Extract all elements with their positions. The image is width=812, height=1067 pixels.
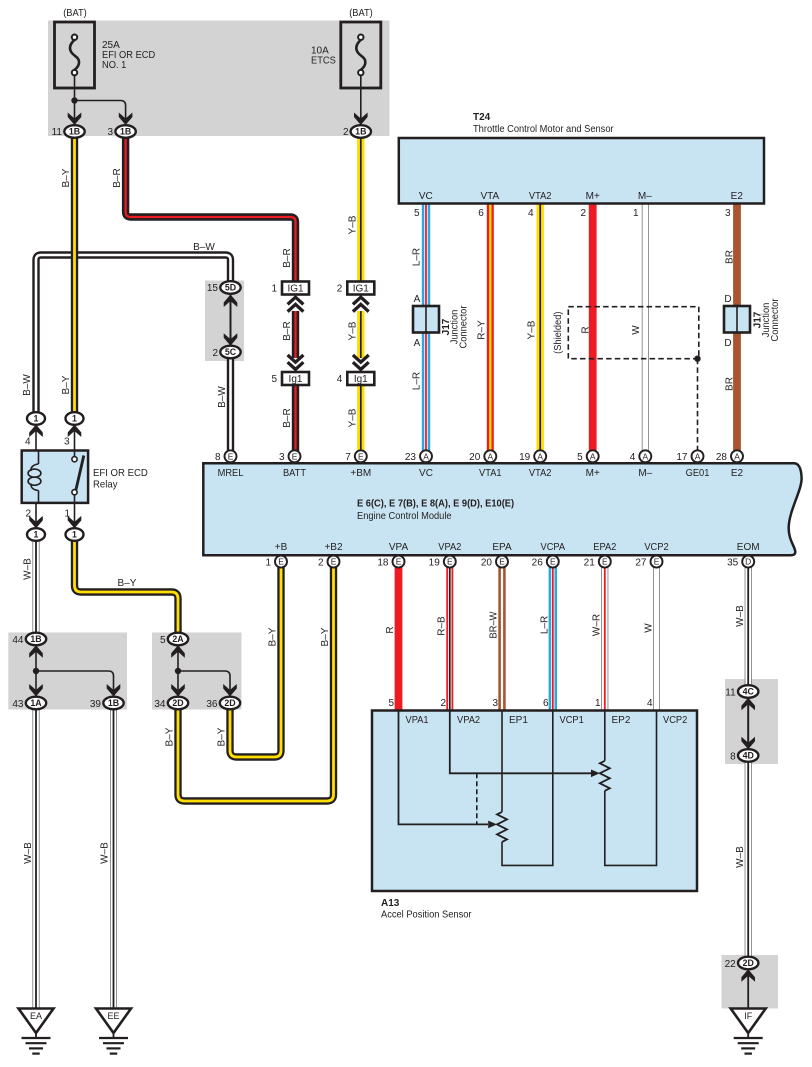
wire W-B 43-1A to ground EA	[33, 710, 40, 1009]
svg-text:5C: 5C	[225, 347, 237, 357]
wire stub below 2 IG1 box	[360, 295, 362, 299]
svg-text:Y–B: Y–B	[526, 320, 537, 339]
A13 internal EP1 line	[501, 711, 503, 812]
svg-text:A: A	[423, 451, 429, 461]
ECM pin 7 E +BM	[355, 450, 367, 462]
svg-text:Relay: Relay	[93, 480, 118, 491]
svg-text:E2: E2	[731, 468, 744, 479]
ECM box E6-E10 engine control module	[203, 463, 801, 555]
svg-text:D: D	[745, 557, 751, 567]
arrow down into 39-1B	[107, 684, 121, 697]
svg-text:BR–W: BR–W	[489, 611, 500, 638]
svg-text:NO. 1: NO. 1	[102, 60, 127, 71]
svg-text:BR: BR	[724, 250, 735, 264]
svg-text:VTA2: VTA2	[529, 191, 552, 202]
ECM pin 26 E VCPA	[547, 556, 559, 568]
svg-text:4: 4	[630, 452, 636, 463]
ECM pin 19 E VPA2	[444, 556, 456, 568]
svg-text:6: 6	[543, 698, 549, 709]
arrow down into pin2 oval	[29, 516, 43, 529]
relay switch	[72, 451, 84, 502]
svg-text:VPA1: VPA1	[406, 715, 429, 726]
arrow down into pin1 oval	[68, 516, 82, 529]
svg-text:A: A	[734, 451, 740, 461]
arrow into 3-1B	[119, 113, 133, 126]
svg-text:A: A	[488, 451, 494, 461]
svg-text:R–B: R–B	[436, 616, 447, 636]
svg-text:EPA: EPA	[492, 542, 512, 553]
wire fuse2 to connector 2-1B	[360, 75, 362, 126]
wire junction to 34-2D	[177, 671, 179, 696]
svg-text:5: 5	[388, 698, 394, 709]
svg-text:7: 7	[345, 452, 351, 463]
svg-text:2D: 2D	[172, 698, 183, 708]
svg-text:Connector: Connector	[459, 305, 470, 349]
wire branch junction to 36-2D	[178, 671, 230, 696]
svg-text:GE01: GE01	[686, 468, 710, 479]
connector 3 1B	[115, 125, 135, 138]
svg-text:6: 6	[478, 208, 484, 219]
svg-text:2: 2	[212, 348, 218, 359]
wire BR E2	[733, 204, 741, 452]
svg-text:1B: 1B	[108, 698, 119, 708]
connector 11 4C	[738, 685, 758, 698]
connector mating chevrons above 5 Ig1	[288, 355, 304, 369]
connector relay pin4 1	[27, 412, 45, 425]
svg-text:3: 3	[64, 437, 70, 448]
svg-text:4: 4	[528, 208, 534, 219]
svg-text:B–R: B–R	[282, 408, 293, 427]
svg-text:L–R: L–R	[539, 616, 550, 634]
ECM pin 28 A E2	[731, 450, 743, 462]
arrow into 11-1B	[68, 113, 82, 126]
svg-text:Ig1: Ig1	[289, 374, 303, 385]
ECM pin 8 E MREL	[225, 450, 237, 462]
A13 accel position sensor box	[372, 711, 697, 892]
ground EA	[19, 1009, 54, 1054]
connector 2A-2D gray box	[152, 633, 242, 710]
svg-text:VC: VC	[419, 191, 433, 202]
svg-text:E: E	[292, 451, 298, 461]
wire between 4C and 4D	[747, 698, 749, 749]
svg-text:B–Y: B–Y	[61, 168, 72, 187]
A13 internal VPA1 wiper line	[399, 711, 489, 824]
svg-text:R: R	[385, 626, 396, 633]
connector 34 2D	[168, 697, 188, 710]
wire B-W MREL to relay pin4	[36, 255, 231, 413]
svg-text:B–Y: B–Y	[217, 727, 228, 746]
wire R-B VPA2	[446, 563, 453, 711]
arrow down into 36-2D	[223, 684, 237, 697]
svg-text:B–Y: B–Y	[320, 627, 331, 646]
arrow up into pin4 oval	[29, 425, 43, 438]
arrow down into 34-2D	[171, 684, 185, 697]
svg-text:VCP1: VCP1	[560, 715, 585, 726]
node fuse1 branch junction	[71, 97, 77, 103]
svg-text:4: 4	[25, 437, 31, 448]
svg-text:Y–B: Y–B	[347, 408, 358, 427]
A13 EP2 bottom U to VCP2	[605, 711, 657, 865]
junction connector J17 left box	[413, 306, 439, 333]
ECM pin 5 A M+	[587, 450, 599, 462]
svg-text:4D: 4D	[743, 751, 754, 761]
connector relay pin2 1	[27, 528, 45, 541]
svg-text:M+: M+	[586, 468, 600, 479]
svg-text:+B: +B	[275, 542, 288, 553]
svg-text:1B: 1B	[30, 634, 41, 644]
shield dashed box around M+ and M- wires	[568, 307, 699, 359]
wire B-R fuse to IG1 connector	[126, 138, 296, 283]
svg-text:EOM: EOM	[737, 542, 760, 553]
svg-text:W–R: W–R	[591, 614, 602, 636]
svg-text:D: D	[724, 294, 731, 305]
junction connector J17 right box	[724, 306, 750, 333]
svg-text:19: 19	[429, 557, 441, 568]
svg-text:BATT: BATT	[283, 468, 306, 479]
svg-text:BR: BR	[724, 377, 735, 391]
wire junction down to connector 11-1B	[74, 101, 76, 127]
fuse F2 10A ETCS	[341, 22, 381, 88]
connector 36 2D	[220, 697, 240, 710]
svg-text:W–B: W–B	[23, 558, 34, 580]
svg-text:M–: M–	[638, 468, 652, 479]
svg-text:2A: 2A	[172, 634, 184, 644]
svg-text:Throttle Control Motor and Sen: Throttle Control Motor and Sensor	[473, 124, 614, 135]
svg-text:1: 1	[72, 530, 77, 540]
arrow up into 4C	[741, 698, 755, 711]
wire R VPA	[395, 563, 403, 711]
arrow up into 5-2A	[171, 645, 185, 658]
svg-text:27: 27	[635, 557, 647, 568]
svg-text:B–Y: B–Y	[165, 727, 176, 746]
svg-text:A: A	[590, 451, 596, 461]
svg-text:2: 2	[343, 127, 349, 138]
wire fuse1 to junction	[74, 75, 76, 100]
wire 22-2D to ground IF	[747, 970, 749, 1009]
ECM pin 20 E EPA	[496, 556, 508, 568]
svg-text:VPA2: VPA2	[457, 715, 480, 726]
ECM pin 1 E +B	[275, 556, 287, 568]
wire B-Y relay pin1 to connector 5-2A	[75, 541, 179, 634]
svg-text:M–: M–	[638, 191, 652, 202]
wire W M-	[642, 204, 649, 452]
connector 2 1B	[351, 125, 371, 138]
svg-text:W–B: W–B	[735, 605, 746, 627]
svg-text:E 6(C), E 7(B), E 8(A), E 9(D): E 6(C), E 7(B), E 8(A), E 9(D), E10(E)	[357, 499, 514, 510]
wire L-R VCPA	[549, 563, 557, 711]
svg-text:A: A	[695, 451, 701, 461]
wire shield drain dashed to GE01	[697, 359, 699, 451]
svg-text:L–R: L–R	[411, 372, 422, 390]
ECM pin 35 D EOM	[742, 556, 754, 568]
svg-text:4: 4	[337, 374, 343, 385]
wire Y-B VTA2	[537, 204, 544, 452]
wire W-B EOM to connector 11-4C	[745, 563, 752, 686]
svg-text:5: 5	[160, 635, 166, 646]
svg-text:E: E	[602, 557, 608, 567]
svg-text:Y–B: Y–B	[347, 321, 358, 340]
svg-text:+B2: +B2	[324, 542, 343, 553]
connector box 2 IG1	[347, 282, 374, 295]
svg-text:E: E	[499, 557, 505, 567]
svg-text:5: 5	[271, 374, 277, 385]
svg-text:17: 17	[676, 452, 688, 463]
svg-text:1A: 1A	[30, 698, 42, 708]
arrow up into 5D	[224, 295, 238, 308]
svg-text:11: 11	[52, 127, 63, 138]
svg-text:20: 20	[469, 452, 481, 463]
wire B-Y 34-2D to ECM +B2	[178, 563, 334, 801]
svg-text:VTA2: VTA2	[529, 468, 552, 479]
wire relay pin1 lead	[74, 503, 76, 528]
svg-text:EE: EE	[107, 1011, 119, 1021]
svg-text:Accel Position Sensor: Accel Position Sensor	[381, 910, 472, 921]
ECM pin 21 E EPA2	[599, 556, 611, 568]
connector 43 1A	[26, 697, 46, 710]
svg-text:VCPA: VCPA	[541, 542, 566, 553]
wire Y-B fuse2 to IG1 connector	[357, 138, 364, 283]
connector box 1 IG1	[282, 282, 309, 295]
svg-text:44: 44	[12, 635, 24, 646]
svg-text:2D: 2D	[743, 958, 754, 968]
ECM pin 2 E +B2	[328, 556, 340, 568]
wire relay pin4 lead	[35, 425, 37, 451]
svg-text:15: 15	[207, 283, 219, 294]
ECM pin 3 E BATT	[289, 450, 301, 462]
connector relay pin3 1	[66, 412, 84, 425]
svg-text:W–B: W–B	[23, 842, 34, 864]
wire junction to 43-1A	[35, 671, 37, 696]
svg-text:B–W: B–W	[22, 374, 33, 396]
ECM pin 17 A GE01	[692, 450, 704, 462]
svg-text:B–W: B–W	[193, 242, 215, 253]
svg-text:1: 1	[595, 698, 601, 709]
svg-text:2: 2	[440, 698, 446, 709]
svg-text:23: 23	[405, 452, 417, 463]
svg-text:2: 2	[25, 509, 31, 520]
T24 throttle control motor and sensor box	[399, 138, 764, 204]
connector 22 2D	[738, 957, 758, 970]
svg-text:28: 28	[716, 452, 728, 463]
svg-text:Ig1: Ig1	[354, 374, 368, 385]
svg-text:5: 5	[577, 452, 583, 463]
svg-text:VPA: VPA	[389, 542, 409, 553]
svg-text:1: 1	[265, 557, 271, 568]
connector 5D-5C gray box	[205, 281, 244, 362]
svg-text:35: 35	[727, 557, 739, 568]
connector box 5 Ig1	[282, 372, 309, 385]
svg-text:18: 18	[377, 557, 389, 568]
svg-text:(Shielded): (Shielded)	[553, 312, 564, 354]
svg-text:21: 21	[584, 557, 596, 568]
ECM pin 23 A VC	[420, 450, 432, 462]
fuse panel gray box	[48, 21, 390, 137]
svg-text:3: 3	[279, 452, 285, 463]
svg-text:B–Y: B–Y	[61, 375, 72, 394]
svg-text:R–Y: R–Y	[476, 320, 487, 340]
wire W VCP2	[653, 563, 660, 711]
ECM pin 20 A VTA1	[484, 450, 496, 462]
connector 4C-4D gray box	[725, 679, 778, 764]
svg-text:22: 22	[725, 959, 737, 970]
connector relay pin1 1	[66, 528, 84, 541]
wire 44-1B to junction	[35, 646, 37, 672]
svg-text:B–R: B–R	[282, 321, 293, 340]
svg-text:R: R	[580, 326, 591, 333]
svg-text:1: 1	[72, 414, 77, 424]
connector mating chevrons below 1 IG1	[288, 297, 304, 311]
svg-text:B–Y: B–Y	[268, 627, 279, 646]
wire relay pin2 lead	[35, 503, 37, 528]
svg-text:ETCS: ETCS	[311, 56, 336, 67]
ground EE	[96, 1009, 131, 1054]
svg-text:VTA1: VTA1	[479, 468, 502, 479]
ECM pin 4 A M–	[639, 450, 651, 462]
svg-text:E: E	[228, 451, 234, 461]
svg-text:VTA: VTA	[480, 191, 499, 202]
wire stub below 1 IG1 box	[295, 295, 297, 299]
svg-text:E: E	[447, 557, 453, 567]
wire branch junction to 39-1B	[36, 671, 114, 696]
wire junction branch to connector 3-1B	[75, 101, 126, 127]
wire W-B 39-1B to ground EE	[110, 710, 117, 1009]
wire stub above 4 Ig1 box	[360, 369, 362, 373]
svg-text:Y–B: Y–B	[347, 215, 358, 234]
svg-text:EA: EA	[30, 1011, 42, 1021]
svg-text:20: 20	[481, 557, 493, 568]
svg-text:W: W	[631, 325, 642, 335]
node shield drain junction	[694, 356, 700, 362]
svg-text:D: D	[724, 338, 731, 349]
A13 EP1 bottom U to VCP1	[502, 711, 553, 865]
wire B-W 5C to ECM MREL	[227, 358, 234, 452]
svg-text:1: 1	[633, 208, 639, 219]
svg-text:Connector: Connector	[770, 298, 781, 342]
svg-text:B–Y: B–Y	[118, 578, 137, 589]
svg-text:E: E	[550, 557, 556, 567]
relay coil	[28, 451, 41, 502]
wire W-R EPA2	[601, 563, 608, 711]
svg-text:L–R: L–R	[411, 248, 422, 266]
svg-text:T24: T24	[473, 112, 491, 123]
wire 5-2A to junction	[177, 646, 179, 672]
arrow down into 5C	[224, 333, 238, 346]
svg-text:5: 5	[414, 208, 420, 219]
A13 internal dashed link	[476, 773, 478, 824]
connector box 4 Ig1	[347, 372, 374, 385]
wire Y-B between connectors	[357, 311, 364, 358]
resistor zigzag EP2 potentiometer	[600, 761, 610, 791]
svg-text:A: A	[414, 294, 421, 305]
svg-text:Engine Control Module: Engine Control Module	[357, 511, 452, 522]
svg-text:IG1: IG1	[353, 284, 370, 295]
wire L-R VC	[422, 204, 430, 452]
resistor zigzag EP1 potentiometer	[497, 812, 507, 842]
svg-text:1B: 1B	[69, 127, 80, 137]
svg-text:E: E	[654, 557, 660, 567]
svg-text:36: 36	[206, 699, 218, 710]
wire R-Y VTA	[487, 204, 494, 452]
connector 39 1B	[103, 697, 123, 710]
svg-text:E: E	[396, 557, 402, 567]
svg-text:E2: E2	[731, 191, 744, 202]
svg-text:43: 43	[12, 699, 24, 710]
svg-text:A13: A13	[381, 898, 400, 909]
svg-text:34: 34	[154, 699, 166, 710]
arrow up into 44-1B	[29, 645, 43, 658]
arrow down into 43-1A	[29, 684, 43, 697]
svg-text:1: 1	[34, 414, 39, 424]
svg-text:IG1: IG1	[287, 284, 304, 295]
svg-text:2D: 2D	[224, 698, 235, 708]
ECM pin 27 E VCP2	[651, 556, 663, 568]
svg-text:2: 2	[337, 284, 343, 295]
arrow up into 22-2D	[741, 969, 755, 982]
svg-text:EP2: EP2	[612, 715, 631, 726]
connector 11 1B	[64, 125, 84, 138]
svg-text:8: 8	[730, 752, 736, 763]
svg-text:3: 3	[492, 698, 498, 709]
svg-text:W–B: W–B	[100, 842, 111, 864]
svg-text:3: 3	[725, 208, 731, 219]
ground IF	[731, 1009, 766, 1054]
wire B-R between connectors	[292, 311, 299, 358]
svg-text:26: 26	[532, 557, 544, 568]
svg-text:3: 3	[107, 127, 113, 138]
relay EFI OR ECD box	[22, 451, 88, 503]
fuse F1 25A EFI OR ECD NO.1	[55, 22, 95, 88]
svg-text:A: A	[414, 338, 421, 349]
svg-text:VCP2: VCP2	[663, 715, 688, 726]
connector 44 1B	[26, 633, 46, 646]
wire R M+	[589, 204, 597, 452]
svg-text:M+: M+	[586, 191, 600, 202]
svg-text:MREL: MREL	[218, 468, 244, 479]
svg-text:2: 2	[318, 557, 324, 568]
svg-text:19: 19	[519, 452, 531, 463]
ECM pin 19 A VTA2	[534, 450, 546, 462]
svg-text:EPA2: EPA2	[593, 542, 616, 553]
svg-text:EFI OR ECD: EFI OR ECD	[93, 468, 148, 479]
connector 2D-IF gray box	[722, 955, 779, 1009]
wire relay pin3 lead	[74, 425, 76, 451]
connector 1B-1A gray box	[8, 633, 127, 710]
svg-text:A: A	[537, 451, 543, 461]
wire W-B relay pin2 to connector 44-1B	[33, 541, 40, 634]
arrow up into pin3 oval	[68, 425, 82, 438]
svg-text:B–W: B–W	[217, 386, 228, 408]
wire B-Y 36-2D to ECM +B	[230, 563, 281, 757]
A13 internal VPA2 wiper line	[450, 711, 591, 773]
svg-text:4: 4	[647, 698, 653, 709]
svg-text:8: 8	[215, 452, 221, 463]
svg-text:(BAT): (BAT)	[349, 8, 373, 19]
connector mating chevrons below 2 IG1	[353, 297, 369, 311]
connector mating chevrons above 4 Ig1	[353, 355, 369, 369]
svg-text:(BAT): (BAT)	[63, 8, 87, 19]
svg-text:E: E	[331, 557, 337, 567]
A13 VPA2 wiper arrow	[591, 770, 600, 778]
wire B-R Ig1 to ECM BATT	[292, 386, 299, 453]
wire W-B 4D to connector 22-2D	[745, 762, 752, 957]
svg-text:1: 1	[271, 284, 277, 295]
svg-text:1: 1	[64, 509, 70, 520]
svg-text:VPA2: VPA2	[438, 542, 461, 553]
svg-text:W: W	[643, 623, 654, 633]
arrow into 2-1B	[354, 113, 368, 126]
wire B-Y fuse1 to relay pin3	[71, 138, 78, 414]
svg-text:2: 2	[580, 208, 586, 219]
